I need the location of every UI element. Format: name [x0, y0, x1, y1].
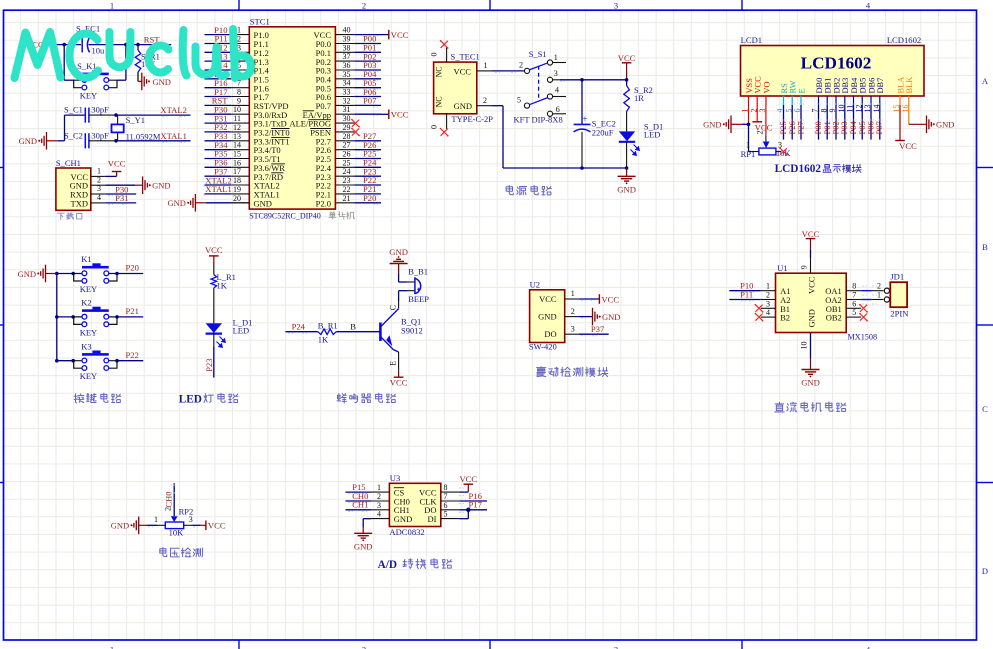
- svg-text:10: 10: [233, 105, 241, 114]
- svg-text:SW-420: SW-420: [529, 341, 557, 351]
- svg-text:8: 8: [444, 483, 448, 492]
- wire led to p23: [213, 334, 215, 378]
- svg-text:GND: GND: [389, 247, 408, 257]
- svg-text:C: C: [982, 404, 988, 414]
- wire u3 do: [459, 510, 487, 513]
- svg-text:KEY: KEY: [80, 327, 97, 337]
- svg-text:VCC: VCC: [108, 159, 126, 169]
- svg-text:DB3: DB3: [841, 78, 850, 94]
- svg-text:S_Y1: S_Y1: [126, 115, 145, 125]
- wire K2 out: [115, 315, 143, 319]
- svg-text:33: 33: [343, 88, 351, 97]
- wire S_R1 to gnd: [136, 43, 142, 82]
- svg-text:DB6: DB6: [867, 78, 876, 94]
- svg-text:S_C2: S_C2: [64, 131, 83, 141]
- label 下载口: [57, 213, 82, 220]
- wire u2 vcc: [579, 299, 600, 301]
- svg-text:1R: 1R: [634, 93, 644, 103]
- svg-text:GND: GND: [394, 514, 412, 524]
- power port VCC (buzzer): [390, 370, 408, 387]
- net label P22: [126, 350, 139, 360]
- mcu pin names: [254, 30, 332, 208]
- power port VCC (lcd pin2): [752, 105, 772, 133]
- lcd erc dashes: [782, 104, 883, 120]
- net label P30: [115, 184, 128, 194]
- svg-text:DB2: DB2: [832, 78, 841, 94]
- svg-text:2: 2: [519, 61, 523, 70]
- pin 1 (U2): [565, 289, 579, 299]
- wire S_CH1 txd: [106, 203, 137, 205]
- svg-text:VCC: VCC: [208, 521, 226, 531]
- power port VCC (U3): [459, 474, 477, 492]
- ground (S_CH1): [143, 176, 171, 194]
- label 电压检测: [160, 548, 203, 557]
- svg-text:S_C1: S_C1: [64, 104, 83, 114]
- net label P17: [469, 500, 483, 510]
- capacitor S_C1: [64, 104, 109, 122]
- wire rp2 left: [139, 525, 158, 527]
- net label CH0 (rp2): [164, 492, 174, 508]
- svg-text:4: 4: [97, 193, 101, 202]
- svg-text:GND: GND: [167, 198, 185, 208]
- logo MCUclub: [15, 29, 252, 78]
- svg-text:10K: 10K: [169, 527, 185, 537]
- svg-text:P07: P07: [874, 121, 884, 134]
- svg-text:GND: GND: [354, 541, 373, 551]
- svg-text:1K: 1K: [217, 281, 228, 291]
- net label P11: [740, 289, 753, 301]
- wire key trunk: [56, 274, 58, 361]
- svg-text:7: 7: [444, 492, 448, 501]
- svg-text:B2: B2: [780, 313, 790, 323]
- net label RST: [144, 35, 161, 45]
- wire vss to gnd: [742, 105, 749, 124]
- svg-text:P07: P07: [363, 96, 377, 106]
- svg-text:P21: P21: [126, 306, 139, 316]
- svg-text:K1: K1: [81, 254, 91, 264]
- node xtal2: [114, 113, 118, 117]
- svg-text:16: 16: [233, 158, 241, 167]
- ground (reset): [142, 73, 171, 91]
- pin 0 bottom (S_TEC1): [430, 114, 449, 137]
- svg-text:LED: LED: [179, 393, 202, 405]
- svg-text:7: 7: [852, 291, 856, 300]
- net label XTAL1: [160, 131, 187, 142]
- svg-text:GND: GND: [111, 521, 129, 531]
- svg-text:3: 3: [571, 324, 575, 333]
- svg-text:LCD1: LCD1: [741, 35, 762, 45]
- wire rb to base: [336, 322, 380, 332]
- mcu overlines: [271, 111, 331, 173]
- svg-text:S_CH1: S_CH1: [56, 158, 81, 168]
- ground (mcu pin20): [167, 194, 195, 212]
- crystal S_Y1: [112, 115, 161, 142]
- node xtal1: [114, 139, 118, 143]
- resistor B_R1: [318, 321, 338, 345]
- resistor S_R2: [624, 80, 653, 112]
- mcu U STC1 body: [249, 16, 335, 209]
- svg-text:12: 12: [233, 123, 241, 132]
- no-connect pin5 (U1): [859, 313, 868, 322]
- svg-text:XTAL1: XTAL1: [205, 184, 232, 194]
- diode S_D1 LED: [619, 122, 663, 156]
- svg-text:GND: GND: [602, 312, 620, 322]
- wire K3 out: [115, 359, 143, 363]
- svg-text:11: 11: [233, 114, 241, 123]
- power port VCC (S_CH1): [106, 159, 126, 177]
- svg-text:GND: GND: [538, 312, 556, 322]
- svg-text:VCC: VCC: [807, 276, 817, 294]
- no-connect pin29: [351, 128, 360, 137]
- power port VCC (U2): [599, 294, 619, 304]
- resistor S_R1: [135, 50, 160, 72]
- svg-text:1: 1: [237, 26, 241, 35]
- pin 2 (U2): [565, 307, 579, 317]
- potentiometer RP1: [741, 105, 792, 159]
- transistor B_Q1 S9012: [380, 309, 422, 352]
- svg-text:VCC: VCC: [390, 378, 408, 388]
- label 按键电路: [74, 393, 121, 403]
- pin 2 (U3): [371, 492, 389, 501]
- wire tec1 to switch: [491, 71, 524, 73]
- resistor L_R1: [211, 272, 236, 291]
- svg-text:3: 3: [97, 184, 101, 193]
- svg-text:18: 18: [233, 176, 241, 185]
- svg-text:3: 3: [614, 0, 618, 10]
- wire u1 gnd: [800, 333, 811, 370]
- svg-text:17: 17: [233, 167, 241, 176]
- svg-text:1: 1: [484, 61, 488, 70]
- wire blk to gnd: [909, 105, 927, 124]
- no-connect pin30: [351, 119, 360, 128]
- ground (RP2): [111, 517, 139, 535]
- wire u3 gnd: [363, 519, 371, 534]
- pin 3 (U1): [761, 299, 776, 308]
- svg-text:BEEP: BEEP: [408, 294, 429, 304]
- svg-text:2: 2: [377, 492, 381, 501]
- svg-text:MX1508: MX1508: [848, 333, 878, 342]
- net label P23: [204, 358, 214, 371]
- label 直流电机电路: [775, 402, 846, 412]
- svg-text:0: 0: [430, 125, 439, 129]
- svg-text:30pF: 30pF: [91, 104, 109, 114]
- pin 3 (U2): [565, 324, 579, 334]
- svg-text:D: D: [982, 566, 988, 576]
- svg-text:GND: GND: [18, 269, 36, 279]
- buzzer B_B1: [408, 267, 430, 305]
- svg-text:30: 30: [343, 114, 351, 123]
- svg-text:24: 24: [343, 167, 351, 176]
- wire r2 to led: [626, 112, 628, 132]
- svg-text:P20: P20: [363, 193, 376, 203]
- svg-text:GND: GND: [617, 184, 636, 194]
- svg-text:3: 3: [377, 501, 381, 510]
- pin 1 (S_CH1): [91, 167, 106, 177]
- svg-text:P23: P23: [204, 358, 214, 371]
- net label P10: [740, 281, 753, 293]
- node keys trunk top: [55, 272, 59, 276]
- svg-text:2: 2: [237, 35, 241, 44]
- svg-text:VCC: VCC: [802, 229, 820, 239]
- wire u2 do: [579, 334, 609, 336]
- no-connect pin3 (U1): [755, 304, 764, 313]
- svg-text:VCC: VCC: [391, 110, 409, 120]
- mcu right wires: [354, 35, 381, 205]
- node do-di: [466, 508, 470, 512]
- diode L_D1 LED: [206, 318, 253, 348]
- lcd data wires: [784, 105, 880, 140]
- capacitor S_EC2: [574, 114, 616, 168]
- wire K2 row: [55, 315, 75, 319]
- svg-text:2: 2: [571, 307, 575, 316]
- svg-text:8: 8: [852, 282, 856, 291]
- svg-text:P2.0: P2.0: [316, 198, 331, 208]
- svg-text:LED: LED: [233, 326, 250, 336]
- svg-text:1: 1: [110, 0, 114, 10]
- label STC89C52RC_DIP40: [249, 212, 321, 221]
- svg-text:GND: GND: [936, 120, 954, 130]
- label LCD1602显示模块: [775, 163, 862, 175]
- svg-text:GND: GND: [454, 101, 472, 111]
- wire switch3 to vcc rail: [560, 80, 627, 82]
- capacitor S_EC1: [76, 24, 105, 56]
- pin 2 (U1): [761, 291, 776, 300]
- wire xtal left: [57, 115, 85, 141]
- svg-text:11.0592M: 11.0592M: [126, 132, 161, 142]
- svg-text:GND: GND: [807, 309, 817, 327]
- pin 4 (S_CH1): [91, 193, 106, 203]
- node ec2 bottom: [580, 166, 584, 170]
- svg-text:5: 5: [444, 510, 448, 519]
- key K2: [74, 298, 117, 338]
- svg-text:2: 2: [164, 507, 173, 511]
- power port VCC (U1): [802, 229, 820, 249]
- ground (U1): [801, 370, 820, 388]
- svg-text:27: 27: [343, 141, 351, 150]
- svg-text:30pF: 30pF: [91, 131, 109, 141]
- wire u3 clk: [459, 501, 487, 504]
- svg-text:28: 28: [343, 132, 351, 141]
- svg-text:4: 4: [555, 86, 559, 95]
- svg-text:26: 26: [343, 150, 351, 159]
- svg-text:VCC: VCC: [618, 53, 636, 63]
- svg-text:KEY: KEY: [80, 371, 97, 381]
- pin 5 (U1): [846, 308, 861, 317]
- svg-text:U2: U2: [530, 280, 541, 290]
- wire mcu gnd pin20: [195, 202, 249, 204]
- wire tec1 gnd down: [491, 106, 626, 168]
- svg-text:2: 2: [766, 291, 770, 300]
- svg-text:6: 6: [444, 501, 448, 510]
- svg-text:S9012: S9012: [401, 325, 423, 335]
- power port VCC (lcd BLA): [895, 141, 917, 151]
- svg-text:KEY: KEY: [80, 90, 97, 100]
- svg-text:1: 1: [97, 167, 101, 176]
- svg-text:1: 1: [154, 515, 158, 524]
- ground (power rail): [617, 168, 636, 194]
- svg-text:KEY: KEY: [80, 284, 97, 294]
- wire u3 ch1: [346, 510, 372, 512]
- svg-text:1: 1: [877, 290, 881, 299]
- wire reset-left drop: [64, 45, 74, 81]
- pin 2 (S_TEC1): [477, 96, 491, 106]
- power port VCC (S_R2): [618, 53, 636, 80]
- node reset-right: [124, 43, 128, 47]
- svg-text:1: 1: [766, 282, 770, 291]
- wire K1 row: [57, 272, 75, 276]
- pin 5 (U3): [441, 510, 459, 519]
- svg-text:6: 6: [556, 105, 560, 114]
- net label P31: [115, 193, 128, 203]
- svg-text:GND: GND: [801, 378, 820, 388]
- mcu right net labels: [363, 34, 377, 203]
- svg-text:NC: NC: [435, 96, 444, 107]
- key S_K1: [74, 61, 117, 100]
- wire u3 ch0: [346, 501, 372, 503]
- svg-text:2: 2: [483, 96, 487, 105]
- svg-text:OB2: OB2: [826, 313, 842, 323]
- svg-text:2: 2: [877, 282, 881, 291]
- svg-text:10K: 10K: [776, 148, 792, 158]
- label LED灯电路: [179, 393, 238, 405]
- svg-text:4: 4: [377, 510, 381, 519]
- svg-text:U3: U3: [390, 473, 401, 483]
- lcd pin names and numbers: [741, 76, 914, 113]
- svg-text:VCC: VCC: [205, 245, 223, 255]
- svg-text:P17: P17: [469, 500, 483, 510]
- net label CH1: [352, 500, 368, 510]
- node led bottom: [625, 166, 629, 170]
- svg-text:DO: DO: [544, 329, 556, 339]
- svg-text:34: 34: [343, 79, 351, 88]
- svg-text:ADC0832: ADC0832: [389, 527, 424, 537]
- svg-text:LED: LED: [644, 130, 661, 140]
- svg-text:1: 1: [377, 483, 381, 492]
- node ec2 top: [580, 78, 584, 82]
- switch S_S1: [517, 49, 566, 116]
- net label P21: [126, 306, 139, 316]
- svg-text:BLK: BLK: [905, 77, 914, 94]
- pin 7 (U1): [846, 291, 861, 300]
- driver U1 MX1508: [776, 263, 878, 342]
- svg-text:VCC: VCC: [459, 474, 477, 484]
- svg-text:B_R1: B_R1: [318, 321, 338, 331]
- net label P37: [591, 324, 605, 334]
- wire ec2 drop: [581, 80, 583, 124]
- wire u3 vcc: [459, 488, 468, 496]
- mcu left wires: [205, 35, 232, 194]
- lcd net labels: [778, 121, 884, 135]
- svg-text:1K: 1K: [318, 335, 329, 345]
- svg-text:XTAL2: XTAL2: [160, 105, 187, 115]
- svg-text:JD1: JD1: [890, 272, 904, 282]
- wire u1 vcc: [800, 249, 811, 273]
- wire u1 a2: [729, 300, 760, 302]
- svg-text:VCC: VCC: [601, 294, 619, 304]
- svg-text:8: 8: [237, 88, 241, 97]
- svg-text:TYPE-C-2P: TYPE-C-2P: [451, 114, 493, 124]
- power port VCC (RP2): [206, 521, 226, 531]
- svg-text:RW: RW: [789, 80, 798, 93]
- module U2 SW-420: [529, 280, 565, 352]
- pin 7 (U3): [441, 492, 459, 501]
- svg-text:2PIN: 2PIN: [890, 308, 909, 318]
- svg-text:P22: P22: [126, 350, 139, 360]
- node vss: [747, 123, 751, 127]
- svg-text:P20: P20: [126, 263, 139, 273]
- mcu left net labels: [203, 25, 232, 195]
- svg-text:2: 2: [362, 645, 366, 649]
- svg-text:S_S1: S_S1: [529, 49, 547, 59]
- svg-text:10: 10: [800, 342, 809, 350]
- svg-text:DB5: DB5: [859, 78, 868, 94]
- wire u1 oa1: [861, 286, 883, 295]
- svg-text:9: 9: [800, 265, 809, 269]
- svg-text:2: 2: [362, 0, 366, 10]
- wire p24 to rb: [285, 332, 317, 334]
- svg-text:9: 9: [237, 96, 241, 105]
- wire r1 to led: [213, 288, 215, 323]
- svg-text:LCD1602: LCD1602: [887, 35, 921, 45]
- net label P15: [352, 482, 365, 492]
- wire bla to vcc: [899, 105, 901, 141]
- svg-text:14: 14: [233, 141, 241, 150]
- svg-text:1: 1: [554, 53, 558, 62]
- pin 1 (U1): [761, 282, 776, 291]
- net label XTAL2: [160, 105, 187, 117]
- wire S_CH1 gnd: [106, 184, 143, 186]
- pin 6 (U1): [846, 299, 861, 308]
- svg-text:E: E: [389, 361, 398, 366]
- svg-text:3: 3: [766, 299, 770, 308]
- svg-text:P11: P11: [740, 289, 753, 299]
- svg-text:DB4: DB4: [850, 77, 859, 94]
- svg-text:B: B: [350, 322, 356, 332]
- svg-text:DB0: DB0: [815, 78, 824, 94]
- svg-text:1: 1: [571, 289, 575, 298]
- connector JD1: [877, 272, 909, 319]
- wire gnd to buzzer: [399, 264, 408, 283]
- svg-text:S_TEC1: S_TEC1: [451, 52, 480, 62]
- svg-text:29: 29: [343, 123, 351, 132]
- svg-text:S_K1: S_K1: [77, 61, 96, 71]
- svg-text:GND: GND: [152, 181, 170, 191]
- ground (crystal): [19, 132, 58, 150]
- svg-text:VCC: VCC: [754, 76, 763, 94]
- power port VCC (reset): [26, 40, 54, 50]
- no-connect pin4 (U1): [755, 313, 764, 322]
- key K1: [74, 254, 117, 294]
- svg-text:LCD1602: LCD1602: [801, 54, 872, 73]
- svg-text:VO: VO: [762, 81, 771, 93]
- label 震动检测模块: [537, 367, 608, 377]
- pin 0 top (S_TEC1): [430, 40, 449, 62]
- node reset-left: [62, 43, 66, 47]
- wire do to di: [459, 510, 468, 519]
- svg-text:3: 3: [554, 69, 558, 78]
- svg-text:6: 6: [852, 299, 856, 308]
- adc U3 ADC0832: [389, 473, 440, 537]
- wire xtal1 row: [89, 140, 191, 142]
- svg-text:BLA: BLA: [896, 77, 905, 94]
- ground (lcd left): [703, 116, 742, 134]
- svg-text:5: 5: [852, 308, 856, 317]
- pin 8 (U3): [441, 483, 459, 492]
- svg-text:U1: U1: [777, 263, 788, 273]
- svg-text:VCC: VCC: [391, 30, 409, 40]
- pin 6 (U3): [441, 501, 459, 510]
- ground (buzzer): [389, 247, 408, 264]
